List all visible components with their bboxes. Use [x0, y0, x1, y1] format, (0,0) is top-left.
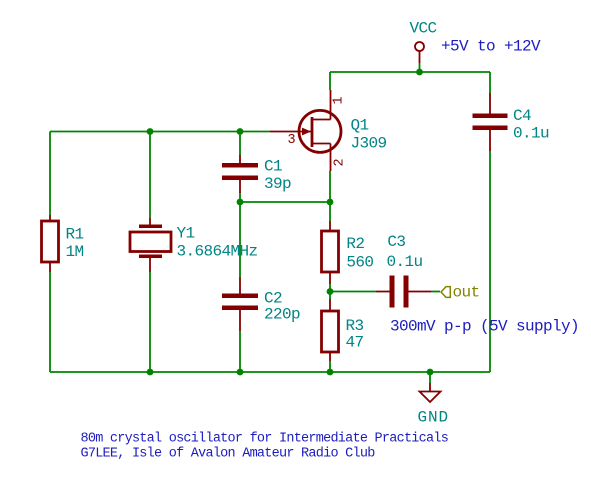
- wire drain vertical: [329, 72, 331, 90]
- capacitor C1 pins: [239, 155, 241, 193]
- wire C1 lower: [239, 193, 241, 202]
- svg-text:R1: R1: [66, 225, 84, 243]
- capacitor C1: [222, 163, 258, 180]
- wire left column upper: [49, 132, 51, 216]
- wire R3 bottom: [329, 361, 331, 372]
- svg-text:3.6864MHz: 3.6864MHz: [177, 243, 258, 261]
- junction rail R3: [327, 369, 334, 376]
- power flag VCC: [415, 42, 424, 63]
- svg-text:220p: 220p: [264, 306, 300, 324]
- capacitor C2 pins: [239, 277, 241, 331]
- wire R3 top: [329, 292, 331, 300]
- svg-text:Q1: Q1: [351, 117, 369, 135]
- svg-text:R3: R3: [346, 317, 364, 335]
- wire GND stub: [429, 372, 431, 383]
- svg-text:2: 2: [333, 159, 348, 167]
- junction mid C1 bottom: [237, 199, 244, 206]
- resistor R1: [42, 221, 59, 262]
- transistor Q1: [270, 90, 341, 171]
- wire source vertical: [329, 171, 331, 202]
- svg-text:39p: 39p: [264, 175, 291, 193]
- crystal Y1: [130, 225, 171, 259]
- svg-text:Y1: Y1: [177, 225, 195, 243]
- capacitor C2: [222, 294, 258, 311]
- junction mid source: [327, 199, 334, 206]
- global label out: [441, 284, 480, 302]
- junction rail C2: [237, 369, 244, 376]
- wire crystal upper: [149, 132, 151, 219]
- resistor R3: [322, 311, 339, 352]
- svg-text:GND: GND: [418, 409, 450, 427]
- wire C1 upper: [239, 132, 241, 156]
- svg-text:VCC: VCC: [410, 20, 437, 38]
- svg-text:G7LEE, Isle of Avalon Amateur: G7LEE, Isle of Avalon Amateur Radio Club: [81, 446, 376, 461]
- svg-text:3: 3: [288, 133, 296, 148]
- resistor R2 pins: [329, 221, 331, 284]
- capacitor C3: [390, 276, 409, 308]
- junction rail crystal: [147, 369, 154, 376]
- crystal Y1 pins: [149, 218, 151, 272]
- resistor R2: [322, 231, 339, 272]
- junction gate rail crystal: [147, 128, 154, 135]
- svg-text:0.1u: 0.1u: [387, 253, 423, 271]
- capacitor C4: [473, 114, 508, 131]
- wire C2 upper: [239, 202, 241, 277]
- svg-text:47: 47: [346, 334, 364, 352]
- wire top rail: [330, 71, 490, 73]
- wire R2 bottom: [329, 284, 331, 292]
- capacitor C3 pins: [376, 291, 431, 293]
- wire mid horizontal: [240, 201, 330, 203]
- wire out label stub: [431, 291, 440, 293]
- wire gate rail: [50, 131, 270, 133]
- svg-text:1M: 1M: [66, 243, 84, 261]
- svg-text:0.1u: 0.1u: [513, 125, 549, 143]
- svg-text:80m crystal oscillator for Int: 80m crystal oscillator for Intermediate …: [81, 431, 449, 446]
- svg-text:C4: C4: [513, 107, 531, 125]
- wire VCC stub: [419, 63, 421, 72]
- svg-text:R2: R2: [346, 235, 364, 253]
- wire crystal lower: [149, 272, 151, 372]
- junction rail GND: [427, 369, 434, 376]
- resistor R1 pins: [49, 215, 51, 272]
- junction out node: [327, 288, 334, 295]
- svg-text:C1: C1: [264, 158, 282, 176]
- svg-text:300mV p-p (5V supply): 300mV p-p (5V supply): [390, 318, 579, 336]
- wire C4 bottom to rail: [489, 151, 491, 372]
- wire C2 lower: [239, 331, 241, 372]
- wire R2 top: [329, 202, 331, 221]
- svg-text:1: 1: [332, 97, 347, 105]
- wire C4 top: [489, 72, 491, 93]
- wire out horizontal: [330, 291, 376, 293]
- svg-text:C3: C3: [387, 233, 405, 251]
- junction at VCC rail: [416, 69, 423, 76]
- wire left column lower: [49, 272, 51, 372]
- svg-text:+5V to +12V: +5V to +12V: [441, 38, 541, 56]
- wire bottom rail: [50, 371, 490, 373]
- svg-text:out: out: [453, 284, 480, 302]
- svg-text:560: 560: [346, 253, 373, 271]
- svg-text:J309: J309: [351, 135, 387, 153]
- ground: [420, 383, 441, 402]
- capacitor C4 pins: [489, 93, 491, 151]
- junction gate rail C1: [237, 128, 244, 135]
- resistor R3 pins: [329, 299, 331, 361]
